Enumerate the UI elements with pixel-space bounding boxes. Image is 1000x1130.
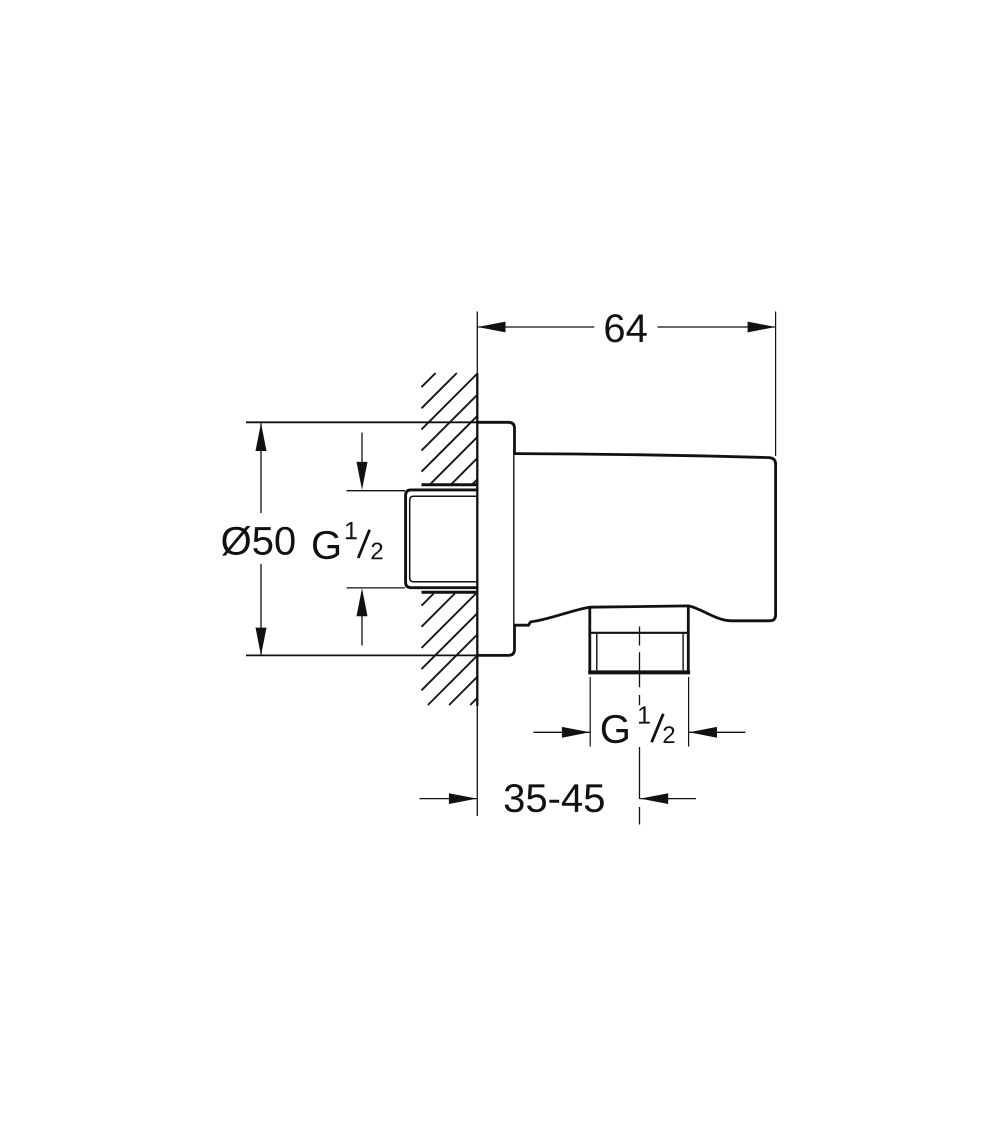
dimension 64 left arrowhead bbox=[478, 322, 506, 333]
outlet shoulder left edge bbox=[588, 607, 591, 671]
label G 1/2 bottom: denominator 2 bbox=[664, 726, 675, 743]
dimension text Ø50 bbox=[222, 526, 295, 556]
flange escutcheon bbox=[477, 422, 514, 655]
main body outline bbox=[515, 454, 776, 626]
label G 1/2 bottom: fraction slash bbox=[652, 714, 664, 742]
wall hole edge lower bbox=[422, 591, 477, 594]
wall hole edge upper bbox=[422, 483, 478, 486]
thread bottom face bbox=[588, 670, 690, 674]
wall line (64 left extension, wall face, 35-45 left extension) bbox=[476, 312, 478, 374]
outlet centre line upper part bbox=[639, 627, 641, 706]
label G 1/2 bottom: numerator 1 bbox=[639, 706, 650, 723]
dimension Ø50 top arrowhead bbox=[256, 423, 267, 451]
dimension 35-45 left arrow bbox=[420, 798, 477, 800]
dimension Ø50 line lower segment bbox=[260, 564, 262, 655]
dimension text 35-45 bbox=[505, 784, 604, 812]
inlet fitting outer bbox=[406, 490, 478, 588]
dimension 64 right arrowhead bbox=[748, 322, 776, 333]
wall hatch lower band bbox=[422, 594, 478, 706]
dimension 64 right extension line bbox=[775, 312, 777, 457]
label G 1/2 bottom: G bbox=[602, 715, 628, 743]
dimension 64 line left segment bbox=[478, 326, 595, 328]
dimension Ø50 line upper segment bbox=[260, 423, 262, 513]
thread chamfer right bbox=[682, 634, 684, 671]
inlet dim bottom extension line bbox=[347, 587, 406, 589]
thread chamfer left bbox=[596, 634, 598, 671]
outlet shoulder right edge bbox=[687, 606, 690, 672]
wall hatch upper band bbox=[422, 373, 478, 484]
label G 1/2 left: numerator 1 bbox=[346, 522, 357, 539]
inlet dim top arrow bbox=[361, 433, 363, 463]
inlet dim bottom arrow bbox=[361, 616, 363, 646]
outlet dim right arrow bbox=[689, 731, 746, 733]
dimension 35-45 right arrow bbox=[640, 798, 696, 800]
label G 1/2 left: G bbox=[313, 531, 339, 559]
dimension Ø50 bottom arrowhead bbox=[256, 628, 267, 656]
dimension 64 line right segment bbox=[658, 326, 776, 328]
outlet dim left extension line bbox=[589, 677, 591, 747]
outlet dim right extension line bbox=[688, 677, 690, 747]
outlet dim left arrow bbox=[534, 731, 590, 733]
label G 1/2 left: denominator 2 bbox=[372, 543, 383, 560]
dimension text 64 bbox=[605, 314, 646, 342]
inlet dim top extension line bbox=[347, 490, 406, 492]
thread top line bbox=[589, 632, 690, 634]
outlet centre line lower part bbox=[639, 747, 641, 825]
label G 1/2 left: fraction slash bbox=[358, 530, 369, 558]
dimension Ø50 bottom extension line bbox=[246, 654, 478, 656]
dimension Ø50 top extension line bbox=[246, 421, 478, 423]
inlet fitting inner thread line bbox=[410, 496, 478, 582]
